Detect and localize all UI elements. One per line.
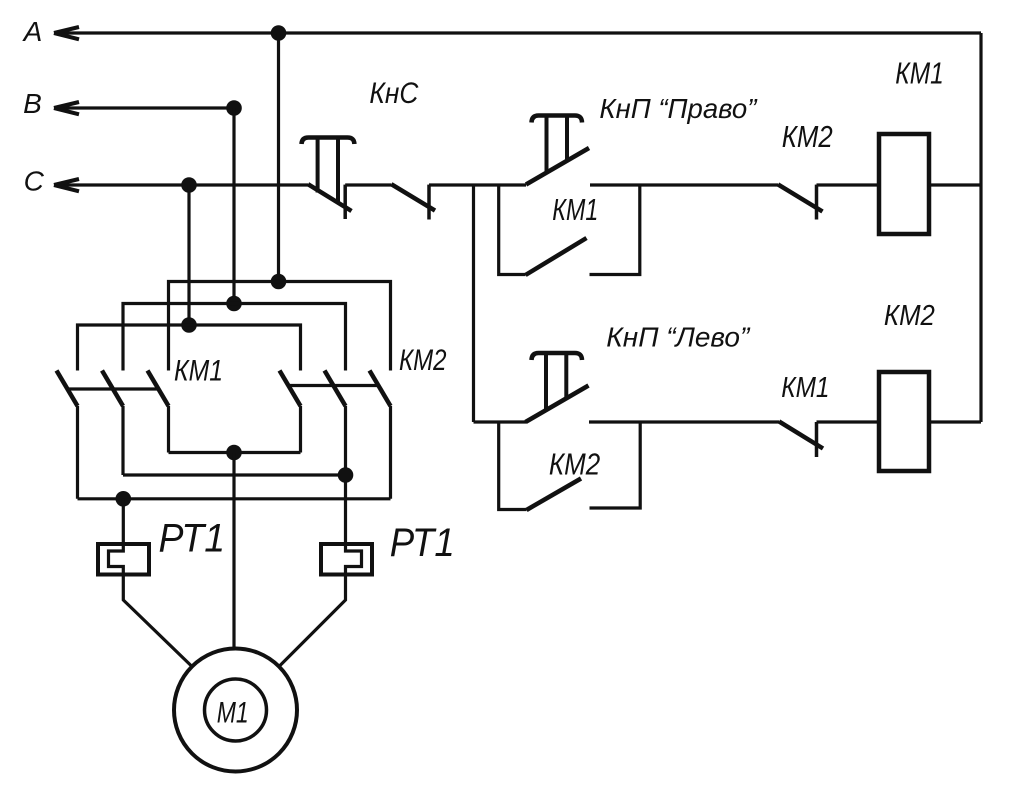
wire bus row 2 (B to KM1 pole2 / KM2 pole2) [123,304,346,371]
pushbutton KnS plunger stems [318,138,338,205]
pushbutton KnP Levo plunger [532,353,583,360]
wire vertical from C to bus row 3 [187,185,190,325]
coil KM2 [879,372,929,471]
svg-text:КнС: КнС [369,77,419,110]
svg-text:КМ1: КМ1 [895,56,944,90]
contactor KM2 main contacts: blade pole1 [280,371,301,407]
contactor KM1 blade pole2 [102,371,123,407]
wire vertical from A to bus row 1 [277,33,280,282]
wire output row joining KM1 pole2 and KM2 pole2 [123,473,346,476]
wire right rail from A [979,33,982,422]
wire vertical from B to bus row 2 [232,108,235,304]
wire KM1 pole3 output [167,406,170,453]
wire after KnP Levo [589,420,779,423]
node C junction dot on line C [181,177,197,193]
contactor KM1 main contacts: blade pole1 [57,371,78,407]
node A junction dot on line A [271,25,287,41]
pushbutton KnS NC blade [308,184,352,211]
thermal contact fixed tick [427,185,431,220]
node dot at KM2 pole2 output [338,467,354,483]
wire left RT1 heater jog and motor left feed [109,499,193,667]
wire coil KM1 to rail [929,183,981,186]
thermal contact NC blade (unlabeled) [391,184,435,210]
node dot left RT1 feed [116,491,132,507]
auxiliary contact KM1 branch left leg [499,185,526,275]
wire phase line B [54,106,234,109]
svg-text:М1: М1 [217,697,249,730]
wire coil KM2 to rail [929,420,981,423]
wire to coil KM2 [817,420,880,423]
wire output row joining KM1 pole1 and KM2 pole3 [78,497,391,500]
wire after KnP Pravo [590,183,778,186]
auxiliary contact KM2 branch left leg [499,422,527,510]
wire phase line C / control rung [54,183,308,186]
arrow B [54,102,79,114]
wire after thermal contact [429,183,526,186]
pushbutton KnP Pravo plunger stems [547,116,568,173]
interlock contact KM1 NC blade [779,421,823,448]
node dot bus row1 [271,274,287,290]
svg-text:РТ1: РТ1 [159,517,226,561]
pushbutton KnP Levo NO blade [526,386,589,423]
svg-text:КМ1: КМ1 [552,192,598,227]
wire KM1 pole1 output [76,406,79,499]
node dot bus row3 [181,317,197,333]
auxiliary contact KM2 blade [527,479,582,511]
wire KM1 pole2 output [121,406,124,475]
node dot motor middle feed [226,445,242,461]
thermal relay RT1 left box [98,544,149,575]
interlock contact KM1 fixed tick [815,422,819,457]
coil KM1 [879,134,929,234]
auxiliary contact KM1 blade [526,238,587,275]
wire after KnS [345,183,391,186]
svg-text:КнП “Лево”: КнП “Лево” [606,322,751,353]
contactor KM2 blade pole3 [370,371,391,407]
arrow C [54,179,79,191]
contactor KM1 blade pole3 [148,371,169,407]
svg-text:КМ2: КМ2 [884,300,935,332]
pushbutton KnS fixed contact tick [343,185,347,219]
pushbutton KnP Levo plunger stems [546,353,566,410]
wire phase line A [54,31,981,34]
motor M1 inner circle [205,679,267,741]
arrow A [54,27,79,39]
contactor KM2 blade pole2 [325,371,346,407]
svg-text:КМ2: КМ2 [782,120,833,154]
auxiliary contact KM1 branch right leg [590,185,640,275]
svg-text:В: В [23,88,42,119]
pushbutton KnP Pravo NO blade [526,148,589,185]
svg-text:РТ1: РТ1 [390,521,455,565]
wire branch vertical to lower rung [472,185,475,422]
node B junction dot on line B [226,100,242,116]
wire lower rung start [474,420,527,423]
auxiliary contact KM2 branch right leg [590,422,641,508]
svg-text:КнП “Право”: КнП “Право” [599,93,758,124]
svg-text:КМ1: КМ1 [174,354,223,387]
interlock contact KM2 NC blade [778,184,823,211]
svg-text:С: С [24,166,45,197]
wire KM2 pole2 output down to RT1 [279,406,362,667]
interlock contact KM2 fixed tick [815,185,819,220]
wire bus row 1 (A to KM1 pole3 / KM2 pole3) [169,282,391,371]
wire KM2 pole1 output [299,406,302,453]
node dot bus row2 [226,296,242,312]
motor M1 outer circle [174,649,297,772]
svg-text:КМ1: КМ1 [781,372,829,404]
svg-text:КМ2: КМ2 [399,344,447,377]
pushbutton KnP Pravo plunger [532,116,583,123]
wire output row joining KM1 pole3 and KM2 pole1 [169,451,301,454]
svg-text:КМ2: КМ2 [549,447,600,481]
svg-text:А: А [22,16,43,47]
wire KM2 pole3 output [389,406,392,499]
pushbutton KnS stop button plunger [302,138,355,145]
wire bus row 3 (C to KM1 pole1 / KM2 pole1) [78,325,301,371]
contactor KM1 linkage bar [67,387,158,390]
contactor KM2 linkage bar [288,384,378,387]
wire to coil KM1 [817,183,880,186]
thermal relay RT1 right box [321,544,372,575]
wire motor middle vertical [232,453,235,649]
